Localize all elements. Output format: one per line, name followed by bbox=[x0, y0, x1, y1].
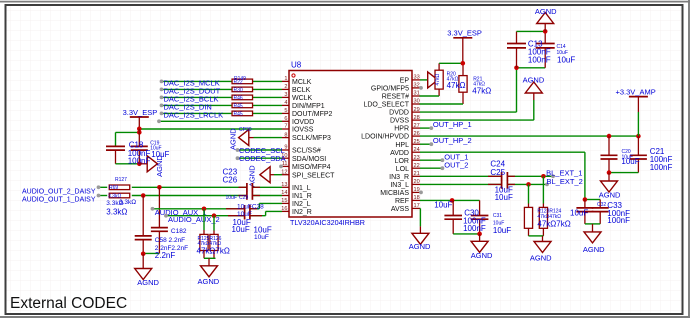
svg-text:10uF: 10uF bbox=[434, 200, 452, 209]
title text External CODEC bbox=[10, 295, 127, 312]
svg-text:10uF: 10uF bbox=[621, 157, 639, 166]
svg-text:31: 31 bbox=[414, 91, 420, 97]
wire AGND top node bbox=[517, 29, 548, 34]
wire C32/C33 top node bbox=[583, 197, 601, 202]
ground AGND daisy bbox=[135, 254, 160, 287]
svg-text:MCLK: MCLK bbox=[292, 79, 312, 86]
capacitor C32 10uF bbox=[576, 200, 593, 224]
svg-text:DVSS: DVSS bbox=[390, 118, 409, 125]
svg-text:47kΩ: 47kΩ bbox=[435, 73, 441, 85]
resistor R30 series on DAC_I2S_DOUT bbox=[232, 87, 253, 93]
svg-text:R69: R69 bbox=[109, 185, 118, 191]
wire DAC_I2S_MCLK bbox=[160, 80, 282, 84]
node OUT_HP_1 label bbox=[433, 120, 472, 129]
capacitor C33 100nF bbox=[592, 200, 609, 224]
wire 3.3V_ESP to C18 branch bbox=[116, 132, 140, 146]
ground AGND sideways at EP bbox=[428, 72, 438, 88]
node AUDIO_OUT_1_DAISY label bbox=[22, 197, 96, 204]
U8 left pins 1-16 with stubs, numbers and names bbox=[281, 76, 335, 216]
value labels C20 C21 bbox=[621, 147, 672, 172]
capacitor C14 10uF bbox=[536, 31, 555, 67]
resistor designator R149 bbox=[234, 76, 246, 82]
node OUT_2 label bbox=[444, 161, 468, 170]
svg-text:33: 33 bbox=[414, 75, 420, 81]
svg-text:LDO_SELECT: LDO_SELECT bbox=[363, 102, 409, 109]
svg-text:47kΩ7kΩ: 47kΩ7kΩ bbox=[197, 247, 230, 256]
power flag 3.3V_ESP (right) bbox=[447, 29, 482, 64]
wire AUDIO_OUT_2_DAISY bbox=[97, 185, 282, 189]
svg-text:U8: U8 bbox=[291, 61, 302, 70]
wire 3.3V_ESP rail to R20 bbox=[439, 62, 463, 64]
wire R123/R124 join bbox=[529, 235, 544, 237]
resistor R46 series on DAC_I2S_BCLK bbox=[232, 95, 253, 101]
svg-text:CP30: CP30 bbox=[239, 127, 252, 133]
svg-text:CODEC_SDA: CODEC_SDA bbox=[239, 154, 286, 163]
svg-text:MISO/MFP4: MISO/MFP4 bbox=[292, 164, 331, 171]
svg-text:IN1_L: IN1_L bbox=[292, 185, 311, 192]
resistor R69 3.3k bbox=[108, 193, 130, 199]
wire C20/C21 ground node bbox=[607, 170, 639, 175]
svg-text:27: 27 bbox=[414, 123, 420, 129]
node MICBIAS unconnected bbox=[419, 191, 423, 195]
U8 right pins 17-33 with stubs, numbers and names bbox=[361, 75, 420, 213]
svg-text:DAC_I2S_LRCLK: DAC_I2S_LRCLK bbox=[164, 111, 224, 120]
svg-text:AVDD: AVDD bbox=[390, 150, 409, 157]
svg-text:47kΩ: 47kΩ bbox=[447, 81, 466, 90]
svg-text:DVDD: DVDD bbox=[389, 110, 409, 117]
svg-text:AGND: AGND bbox=[530, 254, 552, 263]
node DAC_I2S_MCLK label bbox=[164, 79, 220, 88]
ground AGND at AVSS bbox=[409, 226, 431, 251]
ground AGND at SCLK/MFP3 pin 8 bbox=[228, 127, 282, 150]
svg-text:AGND: AGND bbox=[523, 76, 545, 85]
svg-text:OUT_HP_2: OUT_HP_2 bbox=[433, 136, 472, 145]
ground AGND below C20/C21 bbox=[599, 173, 621, 200]
svg-text:R30: R30 bbox=[234, 87, 243, 93]
junction 3.3V_ESP / R21 bbox=[461, 61, 466, 66]
wire DVDD cap bottom node bbox=[514, 66, 545, 71]
svg-text:10uF: 10uF bbox=[237, 211, 252, 218]
value labels C32 C33 bbox=[570, 201, 630, 225]
wire IN3_L pin 20 to BL_EXT_2 bbox=[420, 182, 549, 187]
ground AGND top bbox=[535, 7, 557, 32]
svg-text:100nF: 100nF bbox=[650, 163, 673, 172]
value labels C24 C25 bbox=[490, 159, 513, 202]
svg-text:3.3V_ESP: 3.3V_ESP bbox=[447, 29, 482, 38]
svg-text:AGND: AGND bbox=[583, 245, 605, 254]
svg-text:20: 20 bbox=[414, 179, 420, 185]
svg-text:C31: C31 bbox=[493, 213, 502, 219]
resistor R45 series on DAC_I2S_LRCLK bbox=[232, 111, 253, 117]
junction daisy nodes bbox=[141, 185, 162, 198]
svg-text:8: 8 bbox=[284, 132, 287, 138]
svg-text:10uF: 10uF bbox=[232, 225, 250, 234]
svg-text:3: 3 bbox=[284, 92, 287, 98]
ground AGND below R125/R126 bbox=[198, 258, 220, 286]
svg-text:23: 23 bbox=[414, 155, 420, 161]
svg-text:7: 7 bbox=[284, 124, 287, 130]
svg-text:R149: R149 bbox=[234, 76, 246, 82]
svg-text:32: 32 bbox=[414, 83, 420, 89]
svg-text:REF: REF bbox=[395, 198, 409, 205]
node DAC_I2S_DIN label bbox=[164, 103, 212, 112]
svg-text:AGND: AGND bbox=[228, 128, 237, 150]
svg-text:AGND: AGND bbox=[409, 242, 431, 251]
svg-text:100nF: 100nF bbox=[128, 157, 151, 166]
svg-text:GPIO/MFP5: GPIO/MFP5 bbox=[371, 86, 409, 93]
svg-text:AGND: AGND bbox=[198, 277, 220, 286]
resistor R22 series on DAC_I2S_MCLK bbox=[232, 79, 253, 85]
node AUDIO_AUX_1 label bbox=[155, 208, 207, 217]
wire DAC_I2S_DOUT bbox=[160, 88, 282, 92]
svg-text:LOL: LOL bbox=[396, 166, 409, 173]
svg-text:10uF: 10uF bbox=[557, 56, 575, 65]
value labels R123 R124 47k bbox=[537, 209, 570, 229]
svg-text:R127: R127 bbox=[115, 177, 127, 183]
node DAC_I2S_DOUT label bbox=[164, 87, 221, 96]
resistor R20 47k pull-up bbox=[435, 63, 443, 96]
svg-text:+3.3V_AMP: +3.3V_AMP bbox=[616, 88, 656, 97]
svg-text:30: 30 bbox=[414, 99, 420, 105]
svg-text:AGND: AGND bbox=[471, 251, 493, 260]
svg-text:10uF: 10uF bbox=[226, 195, 237, 201]
svg-text:SPI_SELECT: SPI_SELECT bbox=[292, 172, 335, 179]
svg-text:14: 14 bbox=[281, 190, 287, 196]
resistor R21 47k pull-up bbox=[459, 63, 467, 104]
svg-text:RESET#: RESET# bbox=[382, 94, 409, 101]
svg-text:10uF: 10uF bbox=[570, 209, 588, 218]
resistor R126 47k bbox=[210, 216, 218, 259]
svg-text:4: 4 bbox=[284, 100, 287, 106]
svg-text:SCL/SS#: SCL/SS# bbox=[292, 148, 321, 155]
svg-text:BL_EXT_2: BL_EXT_2 bbox=[547, 177, 583, 186]
capacitor 2.2nF second bbox=[151, 187, 168, 253]
svg-text:HPR: HPR bbox=[394, 126, 409, 133]
wire AVDD pin 24 bbox=[420, 152, 585, 199]
capacitor C26 10uF series IN1_R bbox=[239, 191, 261, 200]
wire OUT_HP_1 bbox=[420, 126, 433, 130]
svg-text:HPL: HPL bbox=[395, 142, 409, 149]
ground AGND below R123/R124 bbox=[530, 236, 552, 263]
node DAC_I2S_BCLK label bbox=[164, 95, 219, 104]
svg-text:IN3_R: IN3_R bbox=[389, 174, 409, 181]
wire DAC_I2S_BCLK bbox=[160, 96, 282, 100]
svg-text:C58 2.2nF: C58 2.2nF bbox=[155, 237, 185, 244]
svg-text:17: 17 bbox=[414, 203, 420, 209]
svg-text:AVSS: AVSS bbox=[391, 206, 409, 213]
svg-text:13: 13 bbox=[281, 182, 287, 188]
svg-text:DOUT/MFP2: DOUT/MFP2 bbox=[292, 111, 333, 118]
svg-text:R45: R45 bbox=[234, 111, 243, 117]
capacitor C21 100nF bbox=[630, 136, 647, 173]
value labels R20 R21 47k bbox=[447, 72, 492, 96]
junction AUX nodes bbox=[202, 207, 217, 219]
svg-text:21: 21 bbox=[414, 171, 420, 177]
svg-text:47kΩ7kΩ: 47kΩ7kΩ bbox=[537, 219, 570, 228]
svg-text:LDOIN/HPVDD: LDOIN/HPVDD bbox=[361, 134, 409, 141]
svg-text:22: 22 bbox=[414, 163, 420, 169]
svg-text:16: 16 bbox=[281, 206, 287, 212]
svg-text:100nF: 100nF bbox=[528, 55, 551, 64]
capacitor C19 10uF bbox=[131, 146, 148, 164]
svg-text:24: 24 bbox=[414, 147, 420, 153]
capacitor C28 10uF series IN2_R bbox=[228, 212, 262, 220]
wire OUT_2 bbox=[420, 166, 444, 170]
svg-text:OUT_2: OUT_2 bbox=[444, 161, 468, 170]
svg-text:IOVSS: IOVSS bbox=[292, 127, 314, 134]
capacitor C23 10uF series IN1_L bbox=[239, 183, 261, 192]
svg-text:29: 29 bbox=[414, 107, 420, 113]
svg-text:1: 1 bbox=[284, 76, 287, 82]
node DAC_I2S_LRCLK label bbox=[164, 111, 224, 120]
wire REF cap ground node bbox=[453, 232, 482, 237]
svg-text:SDA/MOSI: SDA/MOSI bbox=[292, 156, 326, 163]
svg-text:AUDIO_OUT_2_DAISY: AUDIO_OUT_2_DAISY bbox=[22, 189, 96, 196]
capacitor C25 10uF series IN3_L bbox=[488, 180, 515, 189]
node GPIO/MFP5 unconnected bbox=[419, 86, 423, 90]
svg-text:AGND: AGND bbox=[535, 7, 557, 16]
svg-text:10uFC28: 10uFC28 bbox=[237, 204, 264, 211]
node AUDIO_OUT_2_DAISY label bbox=[22, 189, 96, 196]
svg-text:5: 5 bbox=[284, 108, 287, 114]
svg-text:47kΩ: 47kΩ bbox=[472, 87, 491, 96]
svg-text:LOR: LOR bbox=[395, 158, 409, 165]
svg-text:3.3kΩ: 3.3kΩ bbox=[106, 208, 127, 217]
capacitor C18 100nF bbox=[106, 146, 125, 164]
capacitor C13 100nF bbox=[507, 31, 526, 67]
node OUT_1 label bbox=[444, 153, 468, 162]
svg-text:12: 12 bbox=[281, 169, 287, 175]
power flag +3.3V_AMP bbox=[616, 88, 656, 137]
svg-text:SCLK/MFP3: SCLK/MFP3 bbox=[292, 135, 331, 142]
svg-text:DIN/MFP1: DIN/MFP1 bbox=[292, 103, 325, 110]
wire DAC_I2S_LRCLK bbox=[160, 112, 282, 116]
svg-text:MICBIAS: MICBIAS bbox=[380, 190, 409, 197]
wire OUT_1 bbox=[420, 158, 444, 162]
svg-text:26: 26 bbox=[414, 131, 420, 137]
svg-text:C182: C182 bbox=[171, 228, 187, 235]
wire 3.3V_ESP to IOVSS pin 7 bbox=[139, 128, 282, 130]
op-amp U8 TLV320AIC3204IRHBR codec IC body bbox=[289, 61, 412, 228]
svg-text:10uF: 10uF bbox=[254, 234, 269, 241]
svg-text:3.3V_ESP: 3.3V_ESP bbox=[123, 108, 158, 117]
svg-text:100nF: 100nF bbox=[463, 224, 486, 233]
ground AGND sideways at C18/C19 bbox=[139, 155, 164, 177]
value labels 10uF cluster bbox=[226, 195, 272, 241]
wire C32/C33 bottom node bbox=[585, 223, 600, 225]
wire DVDD pin 29 bbox=[420, 68, 517, 112]
capacitor C24 10uF series IN3_R bbox=[488, 172, 515, 181]
ground AGND below REF caps bbox=[471, 234, 493, 260]
node AUDIO_AUX_2 label bbox=[168, 215, 220, 224]
svg-text:C18: C18 bbox=[129, 141, 144, 150]
svg-text:C26: C26 bbox=[223, 176, 238, 185]
svg-text:EP: EP bbox=[400, 78, 410, 85]
wire IN3_R pin 21 to BL_EXT_1 bbox=[420, 174, 555, 179]
capacitor C20 10uF bbox=[601, 136, 618, 173]
capacitor C58 2.2nF bbox=[135, 196, 152, 255]
resistor R123 47k pull-down bbox=[524, 184, 532, 236]
junction node 3.3V_ESP lower bbox=[137, 129, 142, 146]
resistor R127 3.3k bbox=[109, 177, 130, 191]
resistor R125 47k bbox=[200, 209, 208, 258]
svg-text:10uF: 10uF bbox=[151, 150, 169, 159]
svg-text:BCLK: BCLK bbox=[292, 87, 311, 94]
power flag 3.3V_ESP (left) bbox=[123, 108, 158, 129]
wire R21 to LDO_SELECT pin 30 bbox=[420, 103, 464, 105]
wire R20 to RESET# pin 31 bbox=[420, 95, 440, 97]
wire AUDIO_AUX_2 bbox=[164, 211, 282, 217]
wire OUT_HP_2 bbox=[420, 142, 433, 146]
node CODEC_SCL label bbox=[239, 146, 285, 155]
node BL_EXT_1 label bbox=[546, 168, 582, 177]
svg-text:WCLK: WCLK bbox=[292, 95, 313, 102]
capacitor 10uF on REF bbox=[444, 200, 462, 234]
node BL_EXT_2 label bbox=[547, 177, 583, 186]
wire daisy cap ground node bbox=[141, 252, 160, 257]
svg-text:C32: C32 bbox=[597, 202, 606, 208]
svg-text:AGND: AGND bbox=[137, 278, 159, 287]
value labels C18 C19 bbox=[128, 141, 170, 166]
node MISO/MFP4 unconnected bbox=[279, 165, 283, 169]
svg-text:IOVDD: IOVDD bbox=[292, 119, 314, 126]
svg-text:AUDIO_OUT_1_DAISY: AUDIO_OUT_1_DAISY bbox=[22, 197, 96, 204]
value labels C30 C31 bbox=[434, 200, 511, 235]
value labels C23 C26 bbox=[223, 167, 238, 184]
node CODEC_SDA label bbox=[239, 154, 286, 163]
svg-text:15: 15 bbox=[281, 198, 287, 204]
wire EP pin 33 bbox=[420, 79, 428, 81]
svg-text:C29: C29 bbox=[239, 195, 248, 201]
wire LDOIN/HPVDD pin 26 to +3.3V_AMP rail bbox=[420, 134, 641, 139]
svg-text:C25: C25 bbox=[490, 168, 505, 177]
wire CODEC_SCL bbox=[236, 148, 282, 152]
svg-text:25: 25 bbox=[414, 139, 420, 145]
svg-text:IN2_L: IN2_L bbox=[292, 201, 311, 208]
svg-text:3.3kΩ: 3.3kΩ bbox=[119, 199, 136, 206]
value labels C13 C14 bbox=[528, 40, 575, 65]
wire DVSS pin 28 bbox=[420, 100, 534, 120]
capacitor C31 10uF on REF bbox=[471, 200, 489, 234]
wire C18/C19 ground node bbox=[116, 162, 142, 167]
ground AGND at SPI_SELECT pin 12 bbox=[247, 165, 282, 187]
svg-text:IN3_L: IN3_L bbox=[390, 182, 409, 189]
wire CODEC_SDA bbox=[236, 156, 282, 160]
wire R125/R126 join bbox=[204, 257, 216, 259]
svg-text:2: 2 bbox=[284, 84, 287, 90]
ground AGND at DVSS bbox=[523, 76, 545, 101]
svg-text:10uF: 10uF bbox=[493, 226, 511, 235]
value labels R125 R126 47k bbox=[197, 236, 230, 256]
value labels 3.3k bbox=[106, 199, 136, 217]
svg-text:28: 28 bbox=[414, 115, 420, 121]
svg-text:TLV320AIC3204IRHBR: TLV320AIC3204IRHBR bbox=[290, 218, 365, 227]
wire DAC_I2S_DIN bbox=[160, 104, 282, 108]
svg-text:R46: R46 bbox=[234, 95, 243, 101]
svg-text:2.2nF: 2.2nF bbox=[155, 251, 176, 260]
capacitor C29 10uF series IN2_L bbox=[226, 205, 257, 213]
svg-text:AGND: AGND bbox=[599, 191, 621, 200]
svg-text:6: 6 bbox=[284, 116, 287, 122]
svg-text:10uF: 10uF bbox=[495, 193, 513, 202]
svg-text:18: 18 bbox=[414, 195, 420, 201]
value labels C58 2.2nF C182 bbox=[155, 228, 188, 260]
ground AGND below C32/C33 bbox=[583, 224, 605, 254]
svg-text:19: 19 bbox=[414, 187, 420, 193]
svg-text:IN1_R: IN1_R bbox=[292, 193, 312, 200]
svg-text:100nF: 100nF bbox=[607, 216, 630, 225]
svg-text:OUT_HP_1: OUT_HP_1 bbox=[433, 120, 472, 129]
resistor R124 47k pull-down bbox=[539, 176, 547, 236]
node OUT_HP_2 label bbox=[433, 136, 472, 145]
wire AUDIO_AUX_1 bbox=[151, 203, 282, 210]
wire AUDIO_OUT_1_DAISY bbox=[97, 194, 282, 198]
wire AVSS pin 17 to ground bbox=[419, 208, 421, 226]
svg-text:IN2_R: IN2_R bbox=[292, 209, 312, 216]
svg-text:External CODEC: External CODEC bbox=[10, 295, 127, 312]
junction node 3.3V_ESP upper bbox=[137, 127, 142, 132]
resistor R45 series on DAC_I2S_DIN bbox=[232, 103, 253, 109]
wire REF pin 18 bbox=[420, 198, 480, 203]
wire IOVDD pin 6 bbox=[157, 119, 282, 123]
svg-text:R45: R45 bbox=[234, 103, 243, 109]
